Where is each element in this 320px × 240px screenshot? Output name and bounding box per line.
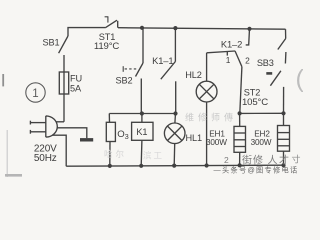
node top rail / SB2 [140, 26, 144, 30]
svg-text:—头条号@图专修电话: —头条号@图专修电话 [214, 166, 299, 175]
node top rail / K1-1 [173, 26, 177, 30]
svg-text:300W: 300W [251, 138, 272, 147]
plug prong upper [30, 122, 45, 124]
ozone generator O3 body [106, 122, 115, 141]
wire bottom rail [66, 165, 283, 166]
heater EH2 top stub [283, 113, 285, 125]
thermostat ST1 thermal actuator mark [105, 17, 109, 23]
wire earth from plug [57, 128, 87, 139]
svg-text:K1: K1 [136, 127, 147, 137]
wire live from plug to fuse column [56, 121, 64, 123]
svg-text:FU: FU [70, 74, 82, 84]
thermostat ST1 blade [105, 20, 117, 28]
relay contact K1-1 top stub [174, 28, 176, 62]
node bottom rail / O3 [108, 164, 112, 168]
svg-text:EH1: EH1 [209, 129, 225, 138]
svg-text:ST2: ST2 [244, 88, 260, 98]
relay contact K1-2 contact-2 stub [246, 29, 250, 45]
node parallel feed / K1 coil [140, 111, 144, 115]
wire right branch bottom stub [283, 87, 285, 113]
svg-text:寸: 寸 [292, 154, 301, 165]
svg-text:2: 2 [245, 55, 250, 65]
node bottom rail / EH1 [238, 163, 242, 167]
thermostat ST2 blade [270, 71, 281, 86]
svg-text:300W: 300W [206, 138, 227, 147]
plug prong lower cap [29, 130, 31, 134]
wire neutral from plug to bottom rail [52, 135, 66, 166]
node top rail / K1-2 [247, 27, 251, 31]
svg-text:(: ( [296, 65, 304, 93]
plug P body [46, 116, 58, 137]
relay coil K1 body [132, 122, 153, 140]
svg-text:1: 1 [226, 55, 231, 65]
svg-text:K1–2: K1–2 [221, 39, 242, 50]
scan artifact left edge upper [2, 74, 4, 86]
svg-text:K1–1: K1–1 [152, 55, 173, 66]
svg-text:HL2: HL2 [185, 70, 201, 80]
relay contact K1-1 blade [161, 62, 176, 80]
wire top rail right (ST1 to right corner) [118, 28, 286, 30]
plug prong upper cap [29, 121, 31, 125]
node bottom rail / EH2 [281, 163, 285, 167]
switch SB2 blade [136, 63, 144, 77]
svg-text:街修: 街修 [242, 154, 264, 167]
ground bar [80, 138, 93, 141]
thermostat ST1 right contact tick [117, 21, 119, 28]
wire right branch top [285, 29, 287, 38]
svg-text:SB1: SB1 [43, 37, 60, 47]
node heater feed / EH1 [238, 111, 242, 115]
relay contact K1-1 bottom stub [175, 81, 177, 113]
switch SB1 bottom terminal / wire to fuse [63, 55, 65, 122]
lamp HL1 bottom stub [173, 144, 176, 166]
wire right branch middle stub [284, 52, 287, 64]
node bottom rail / K1 [139, 164, 143, 168]
switch SB2 bottom stub [140, 79, 142, 114]
node heater feed / EH2 [281, 111, 285, 115]
switch SB3 blade [278, 39, 286, 50]
svg-text:HL1: HL1 [186, 133, 202, 143]
svg-text:2: 2 [224, 155, 229, 165]
plug prong lower [30, 131, 45, 133]
relay contact K1-2 blade [235, 51, 242, 67]
svg-text:哈尔: 哈尔 [104, 149, 127, 159]
relay contact K1-2 contact-1 tick [226, 52, 228, 56]
ozone generator O3 top stub [108, 114, 110, 123]
svg-text:119°C: 119°C [94, 41, 120, 52]
wire heater feed [240, 112, 284, 114]
switch SB2 top stub [142, 28, 144, 63]
heater EH1 bottom stub [239, 152, 241, 165]
heater EH1 body [234, 126, 246, 152]
heater EH2 bottom stub [283, 151, 285, 165]
node bottom rail / HL2 [205, 163, 209, 167]
relay contact K1-2 common wire down [240, 67, 242, 114]
relay coil K1 bottom stub [140, 140, 143, 166]
scan artifact bottom smudge [5, 174, 22, 177]
svg-text:1: 1 [32, 88, 38, 100]
ozone generator O3 bottom stub [109, 142, 111, 166]
node parallel feed / HL1 [173, 111, 177, 115]
relay contact K1-2 contact-1 wire [207, 51, 235, 53]
watermark bottom line 1 [224, 154, 301, 167]
switch SB1 blade [59, 36, 68, 53]
svg-text:EH2: EH2 [254, 129, 270, 138]
wire parallel feed (O3 / K1 / HL1) [109, 113, 175, 115]
heater EH2 body [278, 126, 290, 152]
svg-text:SB2: SB2 [116, 76, 133, 86]
scan artifact left edge lower [6, 130, 8, 177]
thermostat ST2 thermal actuator mark [266, 72, 272, 75]
lamp HL2 bottom stub [206, 102, 208, 166]
lamp HL2 top stub [206, 53, 208, 81]
wire top rail left (SB1 corner to ST1) [68, 28, 105, 36]
svg-text:5A: 5A [70, 84, 82, 94]
svg-text:105°C: 105°C [242, 97, 268, 108]
heater EH1 top stub [239, 113, 241, 126]
lamp HL1 top stub [174, 114, 177, 124]
svg-text:维修师傳: 维修师傳 [185, 112, 237, 123]
switch SB2 button actuator [123, 66, 138, 72]
svg-text:SB3: SB3 [257, 58, 274, 68]
lamp HL2 body [196, 81, 217, 102]
lamp HL1 body [164, 123, 185, 144]
fuse FU body [59, 72, 68, 94]
node bottom rail / HL1 [172, 164, 176, 168]
relay coil K1 top stub [141, 114, 143, 123]
svg-text:50Hz: 50Hz [34, 153, 57, 164]
figure number circle 1 [26, 83, 45, 102]
svg-text:才: 才 [279, 154, 289, 167]
svg-text:滨工: 滨工 [143, 151, 164, 161]
